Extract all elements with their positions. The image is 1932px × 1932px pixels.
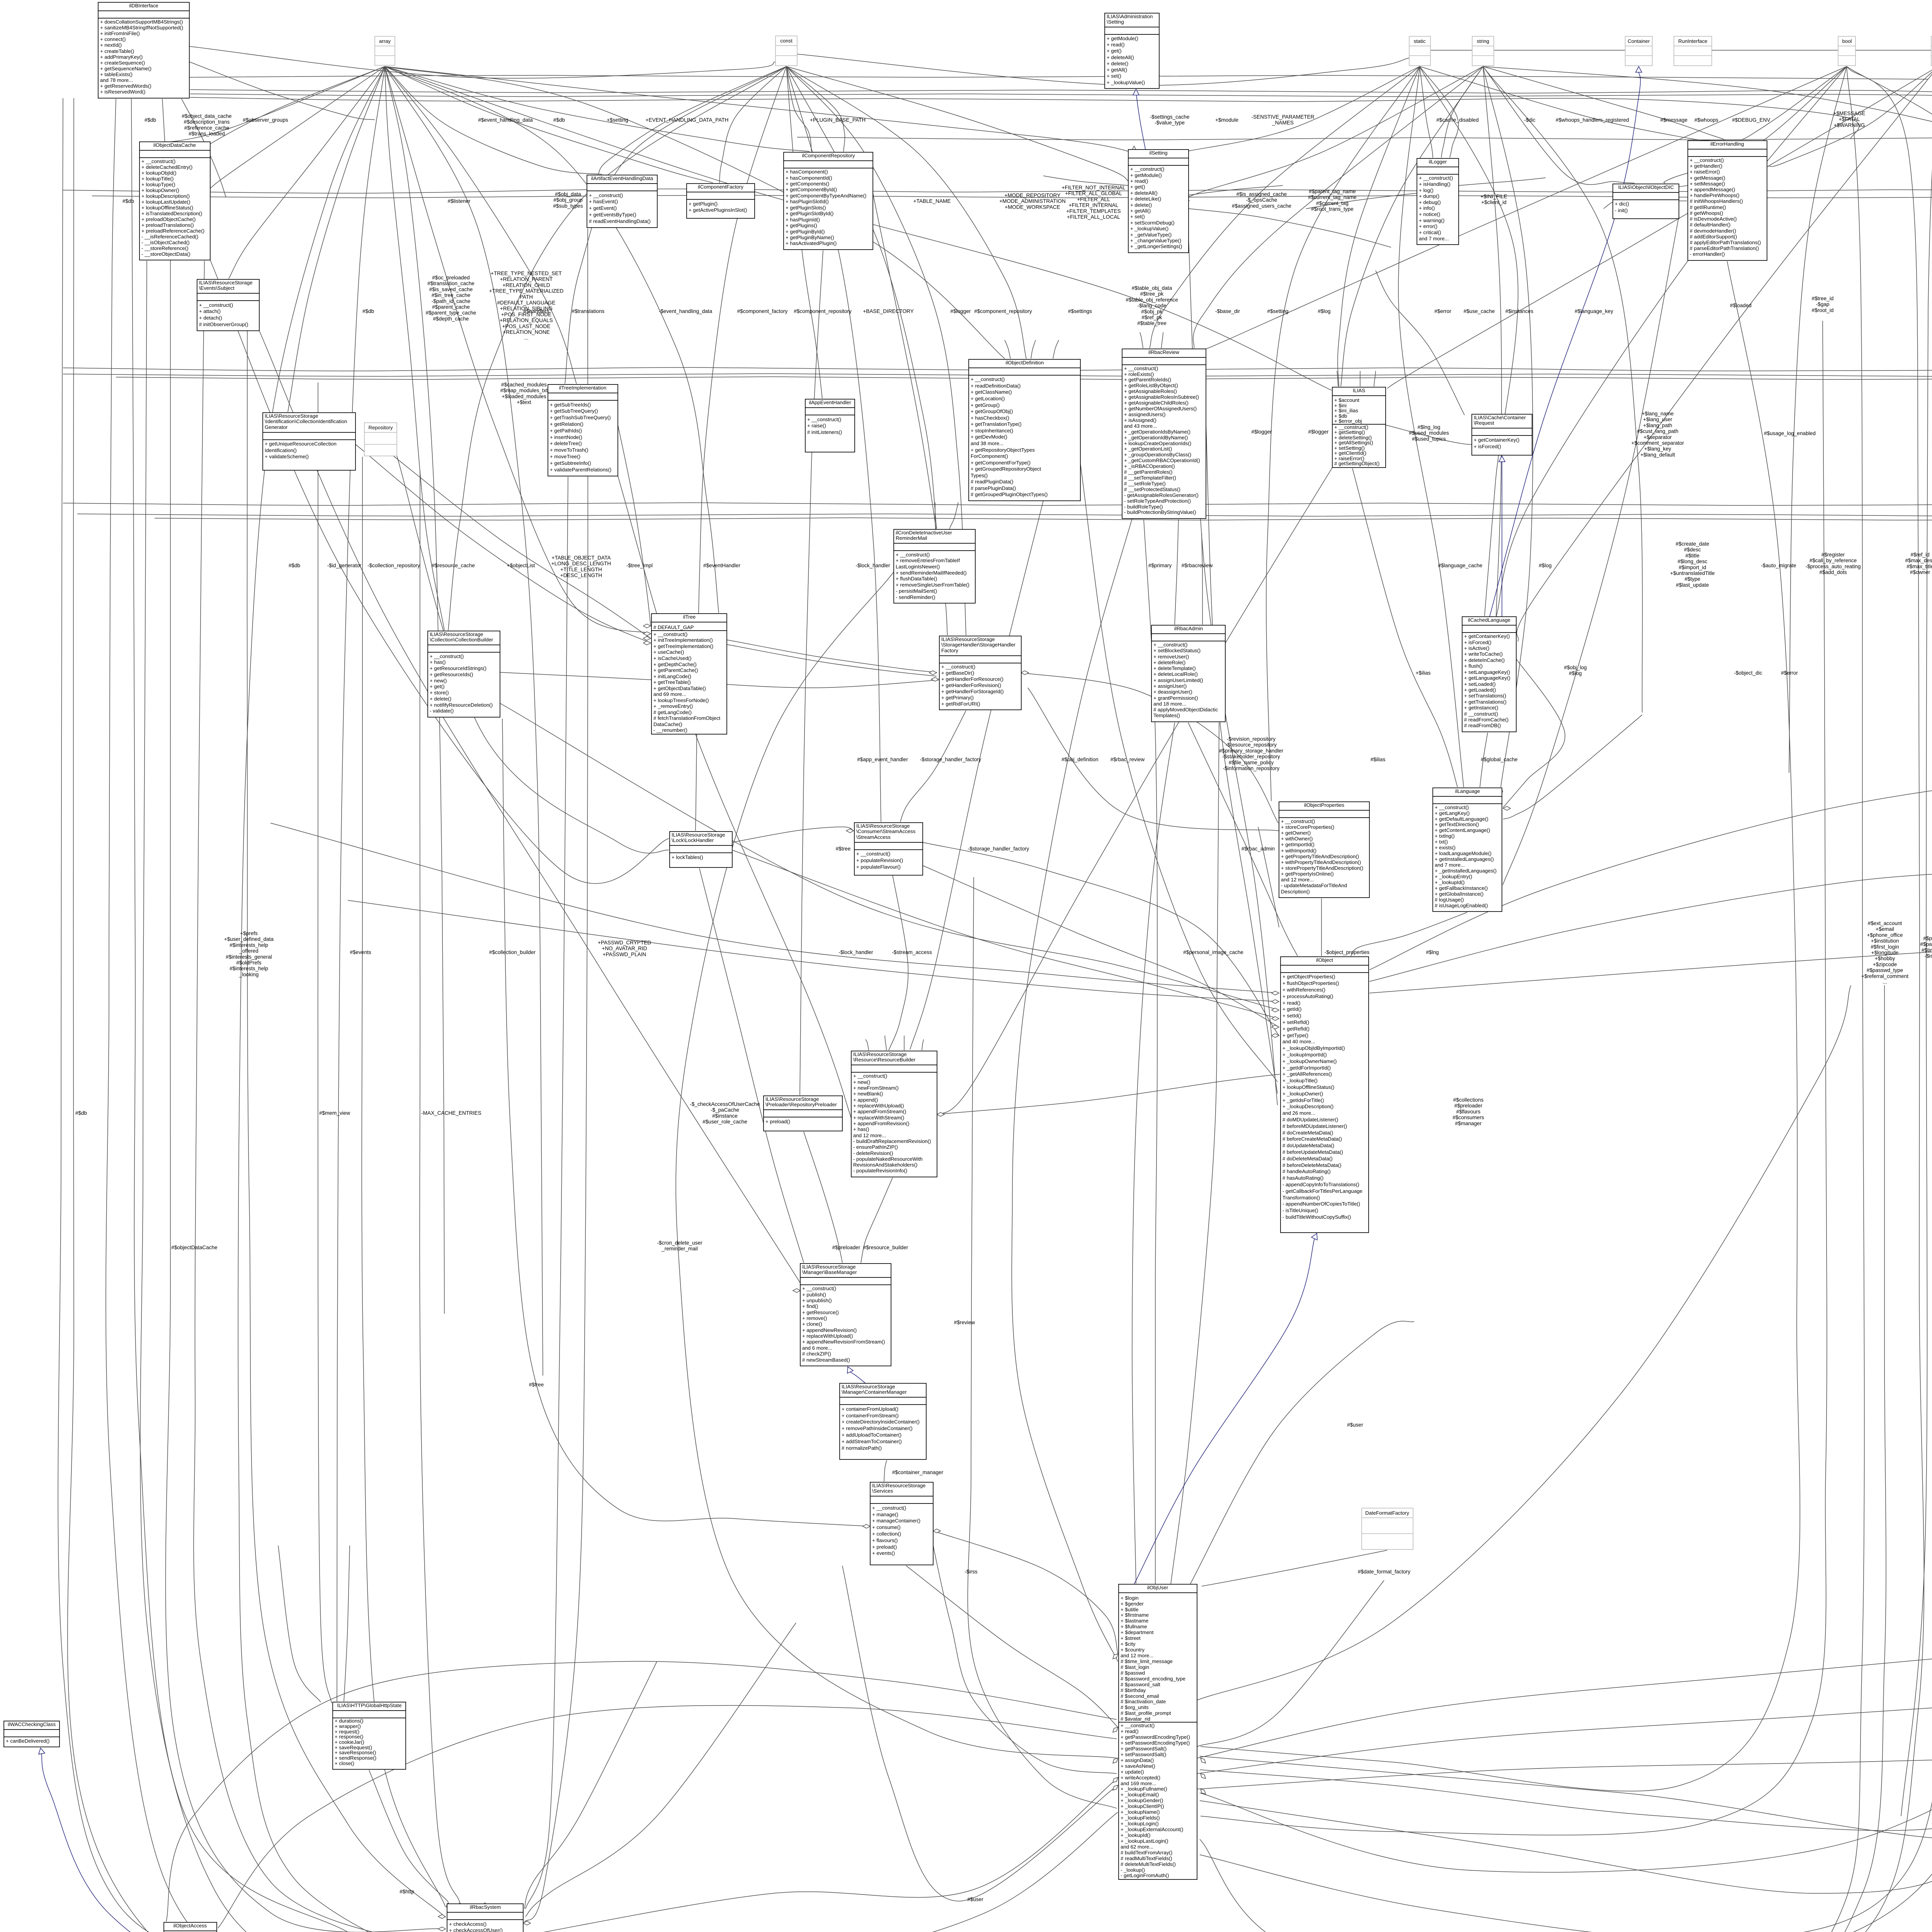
svg-text:#$sub_types: #$sub_types bbox=[553, 203, 583, 209]
svg-text:ILIAS\Administration: ILIAS\Administration bbox=[1107, 14, 1153, 19]
svg-text:+ isTranslatedDescription(): + isTranslatedDescription() bbox=[141, 211, 202, 216]
label #$resource_cache bbox=[432, 563, 475, 568]
svg-text:#$interests_help: #$interests_help bbox=[230, 966, 268, 971]
svg-text:# devmodeHandler(): # devmodeHandler() bbox=[1690, 228, 1736, 234]
class ContainerManager bbox=[840, 1383, 926, 1459]
svg-text:+ getFallbackInstance(): + getFallbackInstance() bbox=[1435, 885, 1488, 891]
svg-text:+ response(): + response() bbox=[335, 1734, 363, 1740]
svg-text:+ isActive(): + isActive() bbox=[1464, 645, 1490, 651]
svg-text:+ set(): + set() bbox=[1130, 214, 1145, 219]
class CollectionBuilder bbox=[428, 631, 500, 717]
svg-text:+ processAutoRating(): + processAutoRating() bbox=[1282, 993, 1333, 999]
label +$INI_FILE bbox=[1480, 194, 1507, 205]
svg-text:and 38 more...: and 38 more... bbox=[971, 440, 1003, 446]
svg-text:+ store(): + store() bbox=[430, 690, 449, 696]
svg-text:# buildTextFromArray(): # buildTextFromArray() bbox=[1121, 1850, 1172, 1855]
svg-text:+ canBeDelivered(): + canBeDelivered() bbox=[6, 1738, 49, 1744]
svg-text:and 12 more...: and 12 more... bbox=[1281, 877, 1314, 883]
svg-text:+ getPropertyIsOnline(): + getPropertyIsOnline() bbox=[1281, 871, 1334, 877]
svg-text:ILIAS\ResourceStorage: ILIAS\ResourceStorage bbox=[941, 636, 995, 642]
svg-text:#$used_topics: #$used_topics bbox=[1412, 436, 1446, 442]
svg-text:+ getResourceIds(): + getResourceIds() bbox=[430, 672, 473, 677]
svg-text:+ getContentLanguage(): + getContentLanguage() bbox=[1435, 827, 1490, 833]
svg-text:- buildProtectionByStringValue: - buildProtectionByStringValue() bbox=[1124, 509, 1196, 515]
svg-text:ilRbacSystem: ilRbacSystem bbox=[470, 1904, 501, 1910]
svg-text:+ __construct(): + __construct() bbox=[1121, 1723, 1155, 1728]
svg-text:# fetchTranslationFromObject: # fetchTranslationFromObject bbox=[653, 715, 721, 721]
svg-text:+ getRepositoryObjectTypes: + getRepositoryObjectTypes bbox=[971, 447, 1035, 453]
svg-text:# checkZIP(): # checkZIP() bbox=[802, 1351, 831, 1357]
svg-text:+ _lookupId(): + _lookupId() bbox=[1435, 879, 1464, 885]
svg-text:+ replaceWithUpload(): + replaceWithUpload() bbox=[853, 1103, 904, 1109]
svg-text:+ appendFromRevision(): + appendFromRevision() bbox=[853, 1121, 910, 1126]
svg-text:#$instances: #$instances bbox=[1505, 308, 1534, 314]
class array bbox=[375, 36, 395, 65]
svg-text:# defaultHandler(): # defaultHandler() bbox=[1690, 222, 1731, 228]
svg-text:+ getRelation(): + getRelation() bbox=[550, 421, 583, 427]
svg-text:+ populateFlavour(): + populateFlavour() bbox=[856, 864, 901, 870]
label #$preloader bbox=[832, 1245, 861, 1250]
label #$message bbox=[1660, 117, 1687, 123]
label #$rbac_admin bbox=[1242, 846, 1275, 852]
svg-text:and 12 more...: and 12 more... bbox=[1121, 1653, 1153, 1658]
svg-text:-$information_repository: -$information_repository bbox=[1223, 765, 1280, 771]
svg-text:ILIAS\ResourceStorage: ILIAS\ResourceStorage bbox=[872, 1483, 926, 1488]
svg-text:+ _lookupExternalAccount(): + _lookupExternalAccount() bbox=[1121, 1827, 1183, 1832]
svg-text:and 62 more...: and 62 more... bbox=[1121, 1844, 1153, 1850]
label +$module bbox=[1215, 117, 1238, 123]
svg-text:+ getResource(): + getResource() bbox=[802, 1310, 839, 1315]
svg-text:Container: Container bbox=[1628, 38, 1650, 44]
svg-text:+ warning(): + warning() bbox=[1419, 218, 1444, 223]
svg-text:Identification(): Identification() bbox=[265, 447, 297, 453]
svg-text:+ replaceWithStream(): + replaceWithStream() bbox=[853, 1115, 904, 1121]
svg-text:#$preloader: #$preloader bbox=[1454, 1103, 1483, 1109]
label -$auto_migrate bbox=[1761, 563, 1796, 568]
label #$ref_id bbox=[1905, 552, 1932, 575]
svg-text:+ deleteInCache(): + deleteInCache() bbox=[1464, 657, 1505, 663]
svg-text:_reminder_mail: _reminder_mail bbox=[661, 1246, 698, 1252]
svg-text:#$collection_builder: #$collection_builder bbox=[489, 949, 536, 955]
label #$component_factory bbox=[737, 308, 788, 314]
svg-text:+ getAllSettings(): + getAllSettings() bbox=[1334, 440, 1373, 446]
svg-text:-$resource_repository: -$resource_repository bbox=[1226, 742, 1277, 748]
svg-text:+ moveToTrash(): + moveToTrash() bbox=[550, 447, 588, 453]
svg-text:#$lng: #$lng bbox=[1426, 949, 1439, 955]
svg-text:#$in_tree_cache: #$in_tree_cache bbox=[432, 293, 471, 298]
svg-text:#$user: #$user bbox=[1347, 1422, 1363, 1428]
svg-text:+ __construct(): + __construct() bbox=[1435, 804, 1469, 810]
svg-text:+ getActivePluginsInSlot(): + getActivePluginsInSlot() bbox=[689, 207, 747, 213]
label #$collections bbox=[1452, 1097, 1484, 1126]
svg-text:+ read(): + read() bbox=[1107, 42, 1125, 48]
label #$ext_account bbox=[1861, 920, 1908, 985]
label -$base_dir bbox=[1215, 308, 1240, 314]
svg-text:+ __construct(): + __construct() bbox=[872, 1505, 906, 1511]
svg-text:#$translations: #$translations bbox=[572, 308, 605, 314]
svg-text:+ getEvent(): + getEvent() bbox=[589, 205, 617, 211]
svg-text:+ getPathIds(): + getPathIds() bbox=[550, 428, 582, 434]
svg-text:# $org_units: # $org_units bbox=[1121, 1704, 1149, 1710]
svg-text:+ __construct(): + __construct() bbox=[1130, 166, 1164, 172]
svg-text:#$ilias: #$ilias bbox=[1371, 757, 1386, 762]
svg-text:-$auto_migrate: -$auto_migrate bbox=[1761, 563, 1796, 568]
svg-text:- __renumber(): - __renumber() bbox=[653, 727, 687, 733]
class ilErrorHandling bbox=[1688, 141, 1767, 260]
svg-text:#$desc: #$desc bbox=[1684, 547, 1701, 553]
svg-text:+ checkAccess(): + checkAccess() bbox=[449, 1921, 486, 1927]
svg-text:#$passwd_type: #$passwd_type bbox=[1867, 968, 1903, 973]
svg-text:+ __construct(): + __construct() bbox=[802, 1286, 836, 1291]
svg-text:+ preloadTranslations(): + preloadTranslations() bbox=[141, 222, 194, 228]
label #$cached_modules bbox=[500, 382, 548, 405]
svg-text:+ lookupTitle(): + lookupTitle() bbox=[141, 176, 173, 182]
class ilLanguage bbox=[1433, 788, 1502, 912]
svg-text:+ createDirectoryInsideContain: + createDirectoryInsideContainer() bbox=[842, 1419, 920, 1425]
svg-text:# hasAutoRating(): # hasAutoRating() bbox=[1282, 1175, 1323, 1181]
svg-text:#$db: #$db bbox=[362, 308, 374, 314]
svg-text:+ flavours(): + flavours() bbox=[872, 1537, 898, 1543]
label -$object_properties bbox=[1325, 949, 1370, 955]
svg-text:# beforeMDUpdateListener(): # beforeMDUpdateListener() bbox=[1282, 1123, 1347, 1129]
svg-text:+ manage(): + manage() bbox=[872, 1512, 898, 1517]
svg-text:# beforeCreateMetaData(): # beforeCreateMetaData() bbox=[1282, 1136, 1342, 1142]
svg-text:+ _lookupClientIP(): + _lookupClientIP() bbox=[1121, 1803, 1164, 1809]
svg-text:- appendNumberOfCopiesToTitle(: - appendNumberOfCopiesToTitle() bbox=[1282, 1201, 1360, 1207]
svg-text:+ _lookupImportId(): + _lookupImportId() bbox=[1282, 1052, 1327, 1058]
label #$logger bbox=[1308, 429, 1329, 435]
svg-text:-$storage_handler_factory: -$storage_handler_factory bbox=[968, 846, 1029, 852]
svg-text:+ info(): + info() bbox=[1419, 205, 1435, 211]
svg-text:#$message: #$message bbox=[1660, 117, 1687, 123]
svg-text:+ __construct(): + __construct() bbox=[1419, 175, 1453, 181]
label #$handlers bbox=[523, 308, 549, 314]
svg-text:+ deleteAll(): + deleteAll() bbox=[1107, 54, 1134, 60]
svg-text:+ lookupOfflineStatus(): + lookupOfflineStatus() bbox=[141, 205, 193, 211]
svg-text:#$preloader: #$preloader bbox=[832, 1245, 861, 1250]
svg-text:+ getPropertyTitleAndDescripti: + getPropertyTitleAndDescription() bbox=[1281, 854, 1359, 859]
svg-text:+ getTextDirection(): + getTextDirection() bbox=[1435, 821, 1479, 827]
svg-text:-$event_handling_data: -$event_handling_data bbox=[659, 308, 713, 314]
svg-text:+PASSWD_PLAIN: +PASSWD_PLAIN bbox=[603, 951, 646, 957]
svg-text:ILIAS\ResourceStorage: ILIAS\ResourceStorage bbox=[430, 631, 483, 637]
svg-text:- populateNakedResourceWith: - populateNakedResourceWith bbox=[853, 1156, 923, 1162]
svg-text:ILIAS\ResourceStorage: ILIAS\ResourceStorage bbox=[856, 823, 910, 829]
svg-text:+ append(): + append() bbox=[853, 1097, 878, 1103]
svg-text:+ publish(): + publish() bbox=[802, 1292, 826, 1298]
label -$object_dic bbox=[1734, 670, 1762, 676]
svg-text:+ __construct(): + __construct() bbox=[856, 851, 890, 857]
label -$settings_cache bbox=[1150, 114, 1190, 126]
svg-text:#$obj_pk: #$obj_pk bbox=[1141, 309, 1162, 315]
svg-text:+ _lookupTitle(): + _lookupTitle() bbox=[1282, 1078, 1318, 1083]
svg-text:+ addStreamToContainer(): + addStreamToContainer() bbox=[842, 1439, 902, 1444]
svg-text:#$ext_account: #$ext_account bbox=[1868, 920, 1902, 926]
svg-text:+ getHandler(): + getHandler() bbox=[1690, 163, 1723, 169]
svg-text:- ensurePathInZIP(): - ensurePathInZIP() bbox=[853, 1144, 898, 1150]
svg-text:+ deleteRole(): + deleteRole() bbox=[1153, 660, 1185, 665]
svg-text:+$loaded_modules: +$loaded_modules bbox=[502, 393, 546, 399]
svg-text:ILIAS\ResourceStorage: ILIAS\ResourceStorage bbox=[842, 1384, 895, 1389]
svg-text:+ _lookupLogin(): + _lookupLogin() bbox=[1121, 1821, 1159, 1827]
svg-text:+ getLoaded(): + getLoaded() bbox=[1464, 687, 1496, 693]
svg-text:+$WARNING: +$WARNING bbox=[1834, 122, 1865, 128]
svg-text:+ getLanguageKey(): + getLanguageKey() bbox=[1464, 675, 1510, 681]
svg-text:# $second_email: # $second_email bbox=[1121, 1693, 1159, 1699]
svg-text:+ loadLanguageModule(): + loadLanguageModule() bbox=[1435, 850, 1492, 856]
svg-text:+ getPasswordEncodingType(): + getPasswordEncodingType() bbox=[1121, 1734, 1190, 1740]
label #$db bbox=[289, 563, 300, 568]
svg-text:#$ref_id: #$ref_id bbox=[1910, 552, 1929, 558]
svg-text:_looking: _looking bbox=[239, 971, 259, 977]
label #$date_format_factory bbox=[1358, 1569, 1410, 1575]
svg-text:+RELATION_CHILD: +RELATION_CHILD bbox=[502, 282, 550, 288]
svg-text:#$reference_cache: #$reference_cache bbox=[184, 125, 229, 131]
svg-text:Repository: Repository bbox=[368, 425, 393, 430]
label #$logger bbox=[1252, 429, 1272, 435]
svg-text:#$DEBUG_ENV: #$DEBUG_ENV bbox=[1732, 117, 1770, 123]
svg-text:# beforeUpdateMetaData(): # beforeUpdateMetaData() bbox=[1282, 1149, 1343, 1155]
svg-text:\Services: \Services bbox=[872, 1488, 893, 1494]
svg-text:#$setting: #$setting bbox=[1267, 308, 1288, 314]
class StorageHandlerFactory bbox=[939, 636, 1021, 710]
svg-text:+ getInstalledLanguages(): + getInstalledLanguages() bbox=[1435, 856, 1494, 862]
svg-text:+ cookieJar(): + cookieJar() bbox=[335, 1739, 364, 1745]
svg-text:+ getParentCache(): + getParentCache() bbox=[653, 667, 698, 673]
svg-text:# addEditorSupport(): # addEditorSupport() bbox=[1690, 234, 1737, 240]
svg-text:+ getRefId(): + getRefId() bbox=[1282, 1026, 1310, 1032]
label #$observer_groups bbox=[243, 117, 288, 123]
svg-text:+ getRoleListByObject(): + getRoleListByObject() bbox=[1124, 383, 1178, 388]
svg-text:# deleteMultiTextFields(): # deleteMultiTextFields() bbox=[1121, 1861, 1176, 1867]
svg-text:+ __construct(): + __construct() bbox=[971, 376, 1005, 382]
svg-text:+ _getAllReferences(): + _getAllReferences() bbox=[1282, 1071, 1332, 1077]
class ilObjUser bbox=[1119, 1584, 1197, 1879]
label -$storage_handler_factory bbox=[920, 757, 981, 762]
svg-text:+ getSequenceName(): + getSequenceName() bbox=[100, 66, 151, 71]
svg-text:+ __construct(): + __construct() bbox=[141, 158, 175, 164]
label #$events bbox=[350, 949, 371, 955]
label +MODE_REPOSITORY bbox=[999, 192, 1066, 210]
svg-text:+$FATAL: +$FATAL bbox=[1838, 116, 1860, 122]
svg-text:#$interests_help: #$interests_help bbox=[230, 942, 268, 948]
svg-text:+ update(): + update() bbox=[1121, 1769, 1144, 1775]
class ilObjectDIC bbox=[1613, 184, 1679, 219]
svg-text:+$hobby: +$hobby bbox=[1875, 956, 1895, 961]
svg-text:+ _lookupName(): + _lookupName() bbox=[1121, 1809, 1160, 1815]
svg-text:#$import_id: #$import_id bbox=[1679, 565, 1706, 570]
label +PLUGIN_BASE_PATH bbox=[810, 117, 866, 123]
label #$review bbox=[954, 1320, 975, 1325]
svg-text:#$ref_pk: #$ref_pk bbox=[1142, 315, 1162, 320]
svg-text:#$lng_log: #$lng_log bbox=[1418, 424, 1440, 430]
svg-text:+ _groupOperationsByClass(): + _groupOperationsByClass() bbox=[1124, 452, 1191, 457]
svg-text:+ __construct(): + __construct() bbox=[1690, 157, 1724, 163]
svg-text:+ getModule(): + getModule() bbox=[1130, 172, 1162, 178]
svg-text:+ dump(): + dump() bbox=[1419, 193, 1439, 199]
svg-text:and 40 more...: and 40 more... bbox=[1282, 1039, 1315, 1044]
label #$lng bbox=[1426, 949, 1439, 955]
svg-text:-$stakeholder_repository: -$stakeholder_repository bbox=[1222, 754, 1280, 760]
svg-text:# doCreateMetaData(): # doCreateMetaData() bbox=[1282, 1130, 1333, 1136]
svg-text:#$root_trans_type: #$root_trans_type bbox=[1311, 206, 1354, 212]
svg-text:#$cached_modules: #$cached_modules bbox=[501, 382, 547, 388]
label -$storage_handler_factory bbox=[968, 846, 1029, 852]
svg-text:ilArtifactEventHandlingData: ilArtifactEventHandlingData bbox=[591, 175, 653, 181]
svg-text:+ deleteTree(): + deleteTree() bbox=[550, 440, 582, 446]
svg-text:# readMultiTextFields(): # readMultiTextFields() bbox=[1121, 1855, 1172, 1861]
svg-text:+ initFromIniFile(): + initFromIniFile() bbox=[100, 31, 140, 36]
svg-text:#$consumers: #$consumers bbox=[1452, 1115, 1484, 1121]
svg-text:+ getNumberOfAssignedUsers(): + getNumberOfAssignedUsers() bbox=[1124, 406, 1197, 412]
svg-text:# handleAutoRating(): # handleAutoRating() bbox=[1282, 1168, 1331, 1174]
svg-text:- _lookup(): - _lookup() bbox=[1121, 1867, 1145, 1873]
label +PASSWD_CRYPTED bbox=[598, 940, 651, 957]
svg-text:+ consume(): + consume() bbox=[872, 1524, 901, 1530]
svg-text:# applyEditorPathTranslations(: # applyEditorPathTranslations() bbox=[1690, 240, 1761, 245]
svg-text:# doUpdateMetaData(): # doUpdateMetaData() bbox=[1282, 1143, 1334, 1148]
svg-text:+ saveResponse(): + saveResponse() bbox=[335, 1750, 376, 1755]
svg-text:+ withPropertyTitleAndDescript: + withPropertyTitleAndDescription() bbox=[1281, 859, 1361, 865]
svg-text:+ deleteLike(): + deleteLike() bbox=[1130, 196, 1161, 202]
svg-text:+ _getOperationList(): + _getOperationList() bbox=[1124, 446, 1172, 452]
svg-text:+ getLocation(): + getLocation() bbox=[971, 396, 1005, 401]
svg-text:+ storeCoreProperties(): + storeCoreProperties() bbox=[1281, 824, 1334, 830]
label -$_checkAccessOfUserCache bbox=[690, 1101, 760, 1125]
svg-text:+ $ini_ilias: + $ini_ilias bbox=[1334, 408, 1358, 413]
svg-text:+ hasComponent(): + hasComponent() bbox=[786, 169, 828, 175]
class ilObjectProperties bbox=[1279, 802, 1369, 898]
svg-text:#$obj_data: #$obj_data bbox=[555, 191, 581, 197]
svg-text:+ events(): + events() bbox=[872, 1550, 895, 1556]
svg-text:ILIAS\ResourceStorage: ILIAS\ResourceStorage bbox=[265, 413, 318, 419]
svg-text:+ debug(): + debug() bbox=[1419, 199, 1441, 205]
svg-text:# __setTemplateFilter(): # __setTemplateFilter() bbox=[1124, 475, 1176, 481]
class const bbox=[776, 36, 797, 66]
svg-text:+ lookupTreesForNode(): + lookupTreesForNode() bbox=[653, 697, 709, 703]
svg-text:+ moveTree(): + moveTree() bbox=[550, 454, 580, 459]
svg-text:+ $country: + $country bbox=[1121, 1647, 1145, 1653]
class AdminSetting bbox=[1105, 13, 1159, 88]
svg-text:#$is_assigned_cache: #$is_assigned_cache bbox=[1236, 191, 1287, 197]
svg-text:+ getOwner(): + getOwner() bbox=[1281, 830, 1311, 836]
svg-text:+EVENT_HANDLING_DATA_PATH: +EVENT_HANDLING_DATA_PATH bbox=[646, 117, 729, 123]
svg-text:+ __construct(): + __construct() bbox=[853, 1073, 887, 1079]
svg-text:+ getPluginByName(): + getPluginByName() bbox=[786, 235, 834, 240]
svg-text:# initObserverGroup(): # initObserverGroup() bbox=[199, 321, 248, 327]
svg-text:# $last_login: # $last_login bbox=[1121, 1664, 1149, 1670]
svg-text:+ read(): + read() bbox=[1130, 178, 1148, 184]
svg-text:+ getContainerKey(): + getContainerKey() bbox=[1474, 437, 1519, 443]
svg-text:ILIAS\ResourceStorage: ILIAS\ResourceStorage bbox=[802, 1264, 856, 1270]
svg-text:#$translation_cache: #$translation_cache bbox=[427, 281, 474, 286]
svg-text:- appendCopyInfoToTranslations: - appendCopyInfoToTranslations() bbox=[1282, 1182, 1359, 1187]
svg-text:#$call_by_reference: #$call_by_reference bbox=[1810, 558, 1857, 563]
svg-text:#DEFAULT_LANGUAGE: #DEFAULT_LANGUAGE bbox=[497, 300, 556, 306]
svg-text:+ storePropertyTitleAndDescrip: + storePropertyTitleAndDescription() bbox=[1281, 865, 1363, 871]
svg-text:+ getAll(): + getAll() bbox=[1107, 67, 1127, 73]
svg-text:#$obj_definition: #$obj_definition bbox=[1061, 757, 1098, 762]
label #$translations bbox=[572, 308, 605, 314]
svg-text:+ initTreeImplementation(): + initTreeImplementation() bbox=[653, 637, 713, 643]
label +FILTER_NOT_INTERNAL bbox=[1062, 185, 1126, 220]
label -$revision_repository bbox=[1219, 736, 1284, 771]
svg-text:#$max_title: #$max_title bbox=[1906, 563, 1932, 569]
svg-text:+$comment_separator: +$comment_separator bbox=[1631, 440, 1684, 446]
svg-text:\Consumer\StreamAccess: \Consumer\StreamAccess bbox=[856, 828, 916, 834]
svg-text:-$_opsCache: -$_opsCache bbox=[1246, 197, 1277, 203]
svg-text:+ preload(): + preload() bbox=[765, 1119, 790, 1124]
svg-text:+MODE_WORKSPACE: +MODE_WORKSPACE bbox=[1005, 204, 1060, 210]
svg-text:#$resource_builder: #$resource_builder bbox=[863, 1245, 908, 1250]
label #$listener bbox=[448, 198, 471, 204]
svg-text:ilRbacAdmin: ilRbacAdmin bbox=[1174, 626, 1203, 631]
svg-text:#$review: #$review bbox=[954, 1320, 975, 1325]
svg-text:ilObjectDataCache: ilObjectDataCache bbox=[153, 142, 196, 148]
svg-text:-$irss: -$irss bbox=[964, 1569, 977, 1575]
label +$ilias bbox=[1416, 670, 1431, 676]
svg-text:+ $account: + $account bbox=[1334, 397, 1359, 403]
svg-text:+ _lookupFields(): + _lookupFields() bbox=[1121, 1815, 1160, 1821]
svg-text:+ getParentRoleIds(): + getParentRoleIds() bbox=[1124, 377, 1171, 383]
svg-text:#$object_data_cache: #$object_data_cache bbox=[182, 113, 231, 119]
svg-text:+FILTER_INTERNAL: +FILTER_INTERNAL bbox=[1069, 202, 1119, 208]
class CacheContainerRequest bbox=[1472, 414, 1532, 455]
svg-text:+ withReferences(): + withReferences() bbox=[1282, 987, 1325, 993]
svg-text:+ flush(): + flush() bbox=[1464, 663, 1483, 669]
label #$settings bbox=[1068, 308, 1092, 314]
svg-text:+ initLangCode(): + initLangCode() bbox=[653, 673, 691, 679]
label #$rbacreview bbox=[1182, 563, 1213, 568]
label #$error bbox=[1434, 308, 1451, 314]
svg-text:ILIAS\ResourceStorage: ILIAS\ResourceStorage bbox=[853, 1051, 907, 1057]
svg-text:\Identification\CollectionIden: \Identification\CollectionIdentification bbox=[265, 418, 347, 424]
svg-text:+ removeUser(): + removeUser() bbox=[1153, 654, 1189, 660]
svg-text:#$resource_cache: #$resource_cache bbox=[432, 563, 475, 568]
svg-text:ilAppEventHandler: ilAppEventHandler bbox=[809, 400, 851, 405]
svg-text:#$passwd_policy_reset: #$passwd_policy_reset bbox=[1920, 941, 1932, 947]
svg-text:+$zipcode: +$zipcode bbox=[1873, 961, 1897, 967]
label #$event_handling_data bbox=[478, 117, 533, 123]
svg-text:PATH: PATH bbox=[520, 294, 533, 300]
svg-text:-$revision_repository: -$revision_repository bbox=[1227, 736, 1276, 742]
svg-text:+ hasPluginId(): + hasPluginId() bbox=[786, 217, 820, 223]
svg-text:ilSetting: ilSetting bbox=[1150, 150, 1168, 156]
svg-text:+$email: +$email bbox=[1876, 926, 1894, 932]
svg-text:+ __construct(): + __construct() bbox=[941, 664, 975, 670]
svg-text:# readFromCache(): # readFromCache() bbox=[1464, 717, 1509, 723]
arrowheads bbox=[202, 198, 206, 206]
svg-text:# getWhoops(): # getWhoops() bbox=[1690, 210, 1723, 216]
label +EVENT_HANDLING_DATA_PATH bbox=[646, 117, 729, 123]
label #$usage_log_enabled bbox=[1764, 430, 1816, 436]
svg-text:+ remove(): + remove() bbox=[802, 1315, 827, 1321]
svg-text:+ getPluginById(): + getPluginById() bbox=[786, 229, 825, 235]
svg-text:# $inactivation_date: # $inactivation_date bbox=[1121, 1699, 1166, 1704]
svg-text:#$last_update: #$last_update bbox=[1676, 582, 1709, 588]
class Container bbox=[1625, 36, 1652, 66]
svg-text:+ _getInstalledLanguages(): + _getInstalledLanguages() bbox=[1435, 868, 1497, 874]
label +TABLE_NAME bbox=[913, 198, 951, 204]
svg-text:+ _lookupOwner(): + _lookupOwner() bbox=[1282, 1091, 1323, 1097]
class ilObjectDefinition bbox=[969, 359, 1080, 501]
svg-text:ilObjUser: ilObjUser bbox=[1147, 1585, 1168, 1590]
class ilObject bbox=[1281, 957, 1369, 1233]
label -$cron_delete_user bbox=[657, 1240, 702, 1252]
svg-text:#$logger: #$logger bbox=[951, 308, 971, 314]
svg-text:\StorageHandler\StorageHandler: \StorageHandler\StorageHandler bbox=[941, 642, 1016, 648]
label -$lock_handler bbox=[838, 949, 873, 955]
